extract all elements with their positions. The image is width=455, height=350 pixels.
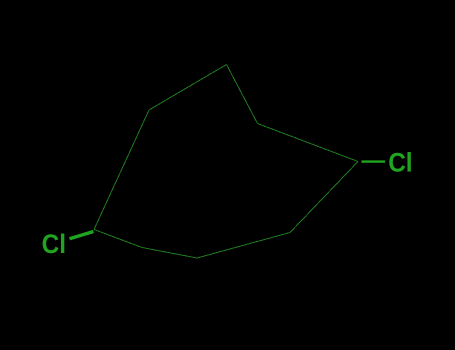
ring bond C8-C1 [94, 230, 142, 248]
svg-text:Cl: Cl [42, 229, 66, 259]
bond C-Cl right (bright) [362, 160, 386, 162]
ring bond C1-C2 [94, 110, 149, 230]
ring bond C6-C7 [197, 233, 290, 259]
svg-text:Cl: Cl [388, 148, 412, 178]
ring bond C4-C5 [258, 124, 359, 162]
ring bond C3-C4 [227, 65, 258, 124]
ring bond C5-C6 [290, 162, 358, 233]
bond C-Cl left (bright) [70, 232, 94, 239]
ring bond C7-C8 [142, 248, 197, 259]
ring bond C2-C3 [149, 65, 227, 111]
